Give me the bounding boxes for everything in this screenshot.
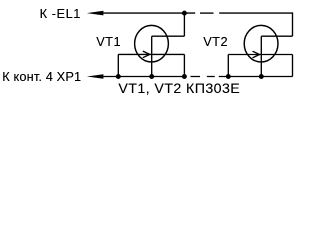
transistor VT1 gate+source line: [118, 53, 184, 55]
transistor VT2 channel (vertical) continuing down as substrate lead to bottom rail: [260, 36, 262, 76]
transistor VT1 gate arrow (open): [143, 51, 150, 58]
wire: bottom rail left solid segment: [101, 76, 187, 78]
label: net K kont. 4 XP1: [2, 69, 81, 84]
arrow to cont. 4 XP1 (filled, pointing left): [87, 74, 104, 79]
transistor VT2 envelope circle: [244, 25, 278, 62]
node: junction dot bottom rail / VT2 gate: [226, 74, 231, 79]
label: net K -EL1: [40, 6, 81, 21]
wire: VT2 source vertical down to bottom rail: [292, 55, 294, 77]
arrow to -EL1 (filled, pointing left): [87, 11, 104, 16]
wire: bottom rail right solid segment: [219, 76, 293, 78]
label: VT1 designator: [96, 34, 121, 49]
transistor VT2 drain lead: [261, 35, 292, 37]
wire: top rail left solid segment to junction: [101, 12, 195, 14]
node: junction dot on top rail: [182, 11, 187, 16]
wire: top rail right solid segment to corner: [219, 12, 292, 14]
node: junction dot bottom rail / VT1 gate: [116, 74, 121, 79]
wire: VT1 source vertical down to bottom rail: [183, 54, 185, 76]
transistor VT1 channel (vertical) continuing down as substrate lead to bottom rail: [151, 36, 153, 76]
wire: bottom rail dashed continuation (two dashes): [191, 76, 215, 78]
transistor VT2 gate arrow (open): [253, 51, 260, 58]
node: junction dot bottom rail / VT1 source: [182, 74, 187, 79]
node: junction dot bottom rail / VT2 substrate: [259, 74, 264, 79]
transistor VT2 gate+source line: [228, 54, 292, 56]
label: caption VT1, VT2 KP303E: [118, 81, 240, 97]
wire: VT1 gate vertical down to bottom rail: [117, 54, 119, 76]
wire: top rail dashed continuation: [200, 12, 214, 14]
wire: VT2 gate vertical down to bottom rail: [227, 55, 229, 77]
label: VT2 designator: [203, 34, 228, 49]
node: junction dot bottom rail / VT1 substrate: [149, 74, 154, 79]
transistor VT1 drain lead: [152, 35, 185, 37]
transistor VT1 envelope circle: [135, 25, 169, 62]
wire: right-side vertical from top rail down to VT2 drain: [292, 12, 294, 36]
wire: VT1 drain vertical up to top rail: [183, 13, 185, 36]
